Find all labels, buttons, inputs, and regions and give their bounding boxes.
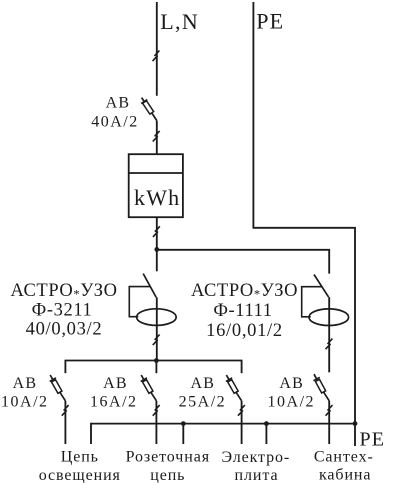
svg-text:L,N: L,N <box>160 9 199 34</box>
circuit breaker QF2 АВ 10А/2 <box>50 375 66 401</box>
svg-text:Розеточная: Розеточная <box>126 449 210 466</box>
svg-text:25А/2: 25А/2 <box>179 394 227 411</box>
wire: PE jog to right riser <box>253 228 355 424</box>
circuit breaker QF5 АВ 10А/2 <box>313 374 329 401</box>
svg-text:Сантех-: Сантех- <box>314 448 374 465</box>
wire: QF3 output down <box>155 401 157 444</box>
svg-text:Ф-3211: Ф-3211 <box>32 301 93 321</box>
wire: bus drop to QF3 <box>155 361 157 374</box>
svg-text:АВ: АВ <box>13 375 38 392</box>
RCD УЗО1 АСТРО-УЗО Ф-3211 <box>129 274 176 326</box>
wire: QF2 output down <box>64 401 66 444</box>
conductor-count mark (2) below QF2 <box>62 405 69 416</box>
svg-text:10А/2: 10А/2 <box>1 394 49 411</box>
svg-text:PE: PE <box>360 429 386 451</box>
wire: УЗО1 ellipse to bus <box>156 297 158 360</box>
svg-text:плита: плита <box>235 467 279 483</box>
wire: QF4 output down <box>241 401 243 444</box>
svg-text:освещения: освещения <box>39 467 121 483</box>
wire: PE riser bottom end <box>354 424 356 446</box>
wire: PE stub circuit 3 drop <box>265 424 267 444</box>
junction: PE bus meets PE riser <box>353 421 358 426</box>
conductor-count mark (2) below QF3 <box>153 405 160 416</box>
circuit breaker QF4 АВ 25А/2 <box>226 375 242 401</box>
circuit breaker QF1 АВ 40А/2 <box>141 98 157 121</box>
wire: QF5 output down <box>328 401 330 444</box>
svg-text:АСТРО*УЗО: АСТРО*УЗО <box>191 281 298 301</box>
svg-text:кабина: кабина <box>319 466 371 483</box>
conductor-count mark (2) below QF4 <box>238 405 245 416</box>
svg-text:Цепь: Цепь <box>61 449 99 466</box>
wire: PE stub circuit 1 <box>90 423 92 444</box>
wire: top distribution bus <box>65 360 241 362</box>
meter terminal divider line <box>129 172 183 174</box>
svg-text:PE: PE <box>256 8 284 33</box>
circuit breaker QF3 АВ 16А/2 <box>141 375 157 401</box>
svg-text:kWh: kWh <box>134 185 180 210</box>
svg-text:АВ: АВ <box>279 375 304 392</box>
wire: PE stub circuit 2 drop <box>182 424 184 444</box>
svg-text:16А/2: 16А/2 <box>90 394 138 411</box>
svg-text:АСТРО*УЗО: АСТРО*УЗО <box>10 281 117 301</box>
junction: УЗО1 output on bus <box>154 358 159 363</box>
conductor-count mark (2) below УЗО2 <box>326 339 333 350</box>
wire: QF1 to meter <box>156 121 158 155</box>
conductor-count mark (2) below QF5 <box>326 405 333 416</box>
conductor-count mark (2) below УЗО1 <box>153 335 160 346</box>
conductor-count mark (2) above meter <box>153 131 160 142</box>
svg-text:10А/2: 10А/2 <box>268 394 316 411</box>
svg-text:40А/2: 40А/2 <box>91 113 139 130</box>
svg-text:цепь: цепь <box>150 467 185 483</box>
svg-text:Ф-1111: Ф-1111 <box>213 301 272 321</box>
svg-text:АВ: АВ <box>190 375 215 392</box>
conductor-count mark (2) below meter <box>153 226 160 237</box>
RCD УЗО2 АСТРО-УЗО Ф-1111 <box>302 275 349 326</box>
junction: PE stub circuit 2 <box>181 421 186 426</box>
conductor-count mark (2) on L,N riser <box>153 51 160 62</box>
wire: meter to node A <box>156 217 158 249</box>
wire: branch node A to right УЗО2 <box>157 250 329 274</box>
svg-text:Электро-: Электро- <box>221 449 290 466</box>
wire: PE bottom bus <box>91 423 355 425</box>
svg-text:40/0,03/2: 40/0,03/2 <box>26 320 103 340</box>
energy meter kWh box <box>129 154 183 217</box>
svg-text:АВ: АВ <box>103 375 128 392</box>
junction: PE stub circuit 3 <box>264 421 269 426</box>
svg-text:16/0,01/2: 16/0,01/2 <box>206 321 283 341</box>
wire: L,N incoming riser <box>156 2 158 96</box>
svg-text:АВ: АВ <box>106 94 131 111</box>
wire: node A down to УЗО1 <box>156 249 158 271</box>
wire: bus drop to QF4 <box>241 360 243 374</box>
junction node A <box>154 247 159 252</box>
wire: УЗО2 down to QF5 <box>328 297 330 372</box>
wire: bus drop to QF2 <box>64 360 66 374</box>
wire: PE incoming riser <box>252 2 254 229</box>
